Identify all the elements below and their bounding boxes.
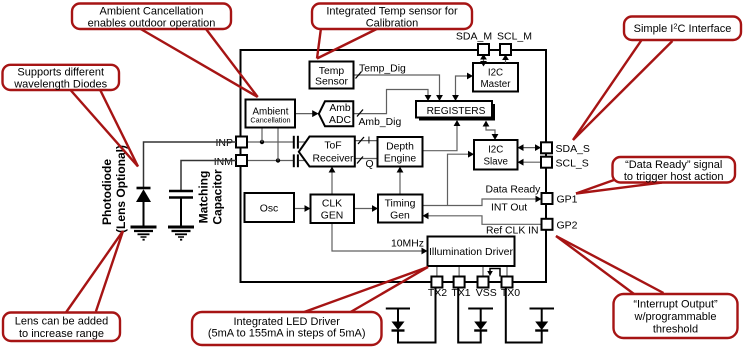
block Illumination Driver <box>428 237 515 267</box>
wire Illumination Driver to TX1 <box>458 266 460 277</box>
wire Illumination Driver to VSS <box>482 266 484 277</box>
label Photodiode (Lens Optional) <box>100 145 128 233</box>
callout: Data Ready signal to trigger host action <box>576 157 735 194</box>
svg-text:INM: INM <box>214 156 233 168</box>
pin TX1 <box>454 277 465 288</box>
wire CLK GEN to ToF Receiver <box>329 167 336 195</box>
svg-text:Data Ready: Data Ready <box>486 185 542 196</box>
svg-text:Amb: Amb <box>329 103 351 114</box>
svg-text:CLK: CLK <box>322 199 342 210</box>
wire INP net with coupling capacitor <box>247 127 305 149</box>
svg-text:I: I <box>368 136 371 147</box>
block Timing Gen <box>378 195 423 223</box>
svg-text:Temp_Dig: Temp_Dig <box>359 64 406 75</box>
wire LED D2 to TX2 <box>398 288 436 343</box>
wire Ref CLK IN: GP2 to Timing Gen <box>423 212 542 224</box>
pin SDA_M <box>478 44 489 55</box>
pin SCL_S <box>541 157 552 168</box>
svg-text:Receiver: Receiver <box>313 154 355 165</box>
block Temp Sensor <box>310 62 354 89</box>
svg-text:Master: Master <box>481 79 512 90</box>
block Osc <box>245 193 295 222</box>
wire Illumination Driver to TX2 <box>436 266 438 277</box>
label INM <box>211 155 234 169</box>
wire 10MHz: CLK GEN to Illumination Driver <box>332 223 428 254</box>
svg-text:Ref CLK IN: Ref CLK IN <box>486 226 539 237</box>
svg-text:10MHz: 10MHz <box>391 239 424 250</box>
svg-text:“Interrupt Output”: “Interrupt Output” <box>633 299 718 311</box>
label Matching Capacitor <box>197 169 225 225</box>
svg-text:Sensor: Sensor <box>315 77 348 88</box>
pin GP2 <box>542 219 553 230</box>
wire Ambient Cancellation to Amb ADC <box>296 110 319 117</box>
pin TX2 <box>431 277 442 288</box>
wire Illumination Driver to TX0 <box>506 266 508 277</box>
wire SCL_S to I2C Slave <box>518 159 542 166</box>
svg-text:Timing: Timing <box>385 199 416 210</box>
wire Timing Gen to Depth Engine <box>397 167 404 195</box>
block Amb ADC <box>319 101 354 126</box>
svg-text:“Data Ready” signal: “Data Ready” signal <box>625 159 722 171</box>
pin GP1 <box>542 193 553 204</box>
svg-text:SCL_S: SCL_S <box>556 158 589 170</box>
ground for matching capacitor <box>168 227 194 241</box>
svg-text:(5mA to 155mA in steps of 5mA): (5mA to 155mA in steps of 5mA) <box>208 328 366 340</box>
svg-text:Amb_Dig: Amb_Dig <box>359 117 402 128</box>
wire photodiode to INP pin <box>144 142 237 188</box>
pin SCL_M <box>500 44 511 55</box>
matching capacitor C1 <box>169 191 193 227</box>
pin SDA_S <box>541 142 552 153</box>
wire INM net with coupling capacitor <box>247 127 305 167</box>
svg-text:TX0: TX0 <box>501 287 520 299</box>
block I2C Master <box>473 63 518 92</box>
LED D4 (TX0) <box>530 309 555 331</box>
wire I2C Slave to SDA_S (bidirectional) <box>518 144 542 151</box>
wire Amb_Dig: Amb ADC to REGISTERS <box>354 90 432 117</box>
callout: Interrupt Output w/programmable threshold <box>556 236 738 338</box>
photodiode D1 <box>136 188 151 227</box>
chip outline U1 <box>241 50 547 282</box>
svg-text:(Lens Optional): (Lens Optional) <box>114 145 128 233</box>
svg-text:Engine: Engine <box>384 154 417 165</box>
svg-text:SCL_M: SCL_M <box>497 31 532 43</box>
svg-text:Illumination Driver: Illumination Driver <box>429 246 514 258</box>
svg-text:Osc: Osc <box>260 204 278 215</box>
svg-text:GP2: GP2 <box>557 219 578 231</box>
pin INP <box>236 137 247 148</box>
wire VSS return hook arrow <box>487 269 500 277</box>
callout: Supports different wavelength Diodes <box>3 65 139 167</box>
svg-text:threshold: threshold <box>653 324 698 336</box>
svg-text:Ambient Cancellation: Ambient Cancellation <box>100 6 204 18</box>
svg-text:enables outdoor operation: enables outdoor operation <box>88 18 216 30</box>
svg-text:ToF: ToF <box>324 141 341 152</box>
wire Data Ready branch to I2C Slave and REGISTERS <box>448 151 475 206</box>
svg-text:GP1: GP1 <box>557 194 578 206</box>
svg-text:Temp: Temp <box>319 66 345 77</box>
svg-text:Gen: Gen <box>390 211 410 222</box>
svg-text:I2C: I2C <box>488 68 503 79</box>
svg-text:SDA_S: SDA_S <box>556 143 590 155</box>
svg-text:REGISTERS: REGISTERS <box>427 106 486 117</box>
pin TX0 <box>502 277 513 288</box>
svg-text:Depth: Depth <box>386 142 414 153</box>
LED D2 (TX2) <box>386 309 410 331</box>
wire Q: ToF Receiver to Depth Engine <box>355 157 378 164</box>
svg-text:TX2: TX2 <box>428 287 447 299</box>
svg-text:Photodiode: Photodiode <box>100 159 114 225</box>
wire REGISTERS to I2C Slave <box>483 121 499 141</box>
svg-text:VSS: VSS <box>476 287 497 299</box>
callout: Integrated Temp sensor for Calibration <box>312 4 472 59</box>
wire Data Ready / INT Out: Timing Gen to GP1 <box>423 196 542 206</box>
LED D3 (TX1) <box>468 309 493 331</box>
pin INM <box>236 155 247 166</box>
wire Depth Engine to REGISTERS <box>423 120 461 151</box>
wire Temp_Dig: Temp Sensor to REGISTERS <box>354 72 443 102</box>
callout: Ambient Cancellation enables outdoor operation <box>72 4 258 98</box>
block REGISTERS <box>416 101 495 121</box>
block Ambient Cancellation <box>246 100 296 128</box>
label INP <box>212 136 234 149</box>
svg-text:INT Out: INT Out <box>491 203 527 214</box>
svg-text:SDA_M: SDA_M <box>456 31 492 43</box>
svg-text:Q: Q <box>366 159 374 170</box>
callout: Simple I2C Interface <box>573 17 741 141</box>
block I2C Slave <box>474 140 518 170</box>
block Depth Engine <box>378 137 423 167</box>
svg-text:Simple I2C Interface: Simple I2C Interface <box>634 22 732 36</box>
svg-text:Slave: Slave <box>483 157 508 168</box>
svg-text:I2C: I2C <box>488 145 503 156</box>
svg-text:ADC: ADC <box>329 115 351 126</box>
svg-text:Supports different: Supports different <box>17 67 104 79</box>
svg-text:Lens can be added: Lens can be added <box>15 316 109 328</box>
svg-text:Integrated Temp sensor for: Integrated Temp sensor for <box>326 6 458 18</box>
svg-text:wavelength Diodes: wavelength Diodes <box>13 79 107 91</box>
svg-text:Calibration: Calibration <box>366 18 419 30</box>
svg-text:Cancellation: Cancellation <box>250 116 290 125</box>
callout: Integrated LED Driver <box>192 267 428 345</box>
block CLK GEN <box>311 195 355 224</box>
wire LED D3 to TX1 <box>458 288 481 343</box>
wire SDA_M pin to I2C Master (bidirectional) <box>480 54 487 67</box>
svg-text:to increase range: to increase range <box>19 328 104 340</box>
ground for photodiode <box>131 227 157 241</box>
svg-text:Integrated LED Driver: Integrated LED Driver <box>234 316 341 328</box>
wire LED D4 to TX0 <box>506 288 542 343</box>
svg-text:TX1: TX1 <box>451 287 470 299</box>
callout: Lens can be added to increase range <box>3 231 123 341</box>
wire matching capacitor to INM pin <box>181 161 236 191</box>
svg-text:to trigger host action: to trigger host action <box>624 171 724 183</box>
svg-text:w/programmable: w/programmable <box>634 311 717 323</box>
svg-text:GEN: GEN <box>321 211 344 222</box>
block ToF Receiver <box>299 137 355 167</box>
wire REGISTERS to I2C Master <box>452 73 473 101</box>
svg-text:Capacitor: Capacitor <box>211 169 225 225</box>
svg-text:INP: INP <box>215 137 233 149</box>
pin VSS <box>478 277 489 288</box>
wire CLK GEN to Timing Gen <box>354 205 378 212</box>
wire I: ToF Receiver to Depth Engine <box>355 137 378 144</box>
wire Osc to CLK GEN <box>294 205 311 212</box>
wire I2C Master to SCL_M pin <box>502 55 509 64</box>
svg-text:Matching: Matching <box>197 171 211 224</box>
